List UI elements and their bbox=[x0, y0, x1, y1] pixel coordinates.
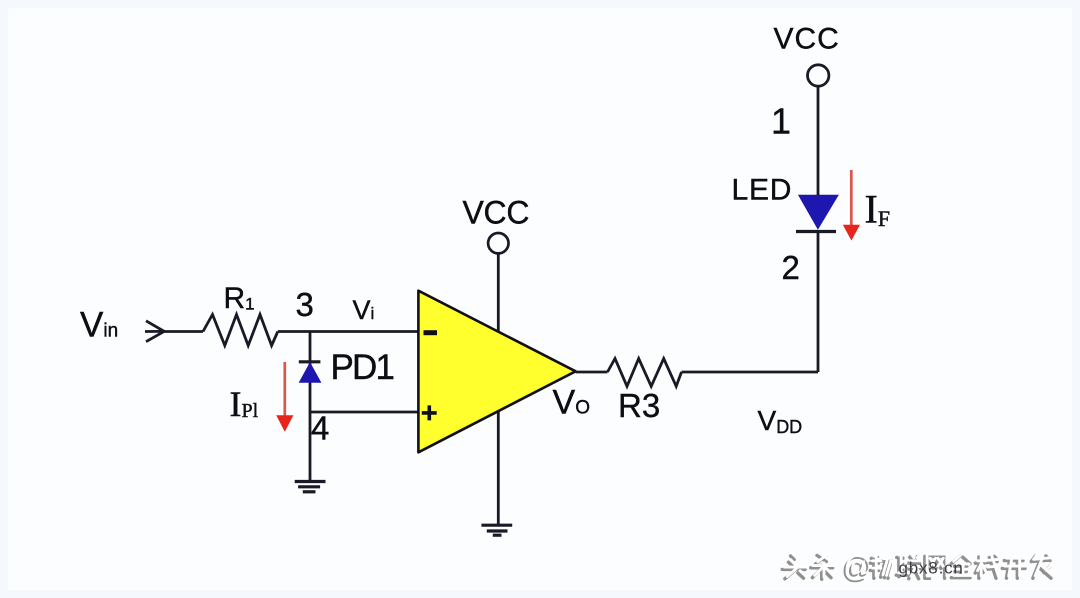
VCC terminal circle for LED bbox=[808, 65, 829, 86]
photodiode PD1 bbox=[299, 362, 321, 383]
node Vi label bbox=[353, 295, 375, 325]
svg-text:VCC: VCC bbox=[463, 195, 530, 231]
label IP1 bbox=[230, 384, 259, 424]
current arrow IP1 bbox=[276, 362, 293, 432]
input terminal arrow bbox=[145, 321, 164, 342]
VCC label top right bbox=[774, 23, 840, 56]
svg-text:3: 3 bbox=[296, 286, 314, 323]
svg-text:PD1: PD1 bbox=[331, 348, 394, 387]
svg-text:gbx8.cn: gbx8.cn bbox=[899, 559, 964, 578]
label VO at op-amp output bbox=[553, 384, 590, 422]
wire R3 to LED branch corner bbox=[682, 371, 819, 374]
pin number 2 bbox=[782, 249, 800, 286]
label VDD bbox=[758, 405, 803, 437]
LED D1 bbox=[796, 195, 838, 231]
svg-text:2: 2 bbox=[782, 249, 800, 286]
label PD1 bbox=[331, 348, 394, 387]
label R3 bbox=[618, 387, 660, 424]
watermark gbx8.cn bbox=[899, 559, 964, 578]
pin number 1 bbox=[771, 101, 791, 142]
wire R1 to op-amp inverting input bbox=[278, 330, 419, 333]
svg-text:LED: LED bbox=[732, 173, 793, 206]
svg-text:VCC: VCC bbox=[774, 23, 840, 56]
svg-text:1: 1 bbox=[771, 101, 791, 142]
wire corner up to LED cathode bbox=[817, 232, 820, 373]
node 3 pin number bbox=[296, 286, 314, 323]
VCC terminal circle above op-amp bbox=[488, 233, 508, 253]
op-amp power wire VCC to ground bbox=[497, 252, 500, 525]
wire Vin to R1 bbox=[164, 330, 203, 333]
label R1 bbox=[224, 282, 255, 315]
label IF bbox=[865, 187, 891, 232]
resistor R3 bbox=[608, 359, 682, 387]
wire node 3 down through PD1 to ground bbox=[309, 332, 312, 482]
svg-text:@: @ bbox=[844, 551, 873, 583]
resistor R1 bbox=[203, 315, 278, 346]
VCC label above op-amp bbox=[463, 195, 530, 231]
svg-text:4: 4 bbox=[311, 410, 329, 447]
watermark 头条@物联网全栈开发 (vector strokes, embossed) bbox=[782, 551, 1053, 585]
label LED bbox=[732, 173, 793, 206]
current arrow IF bbox=[843, 170, 860, 241]
wire node 4 to op-amp non-inverting input bbox=[310, 411, 418, 414]
wire op-amp output to R3 bbox=[576, 371, 608, 374]
svg-text:R3: R3 bbox=[618, 387, 660, 424]
op-amp U1 bbox=[418, 291, 575, 453]
wire LED anode to VCC terminal bbox=[817, 86, 820, 195]
node 4 pin number bbox=[311, 410, 329, 447]
ground under op-amp bbox=[481, 525, 512, 535]
node Vin label bbox=[80, 306, 118, 345]
ground under PD1 bbox=[295, 482, 326, 492]
